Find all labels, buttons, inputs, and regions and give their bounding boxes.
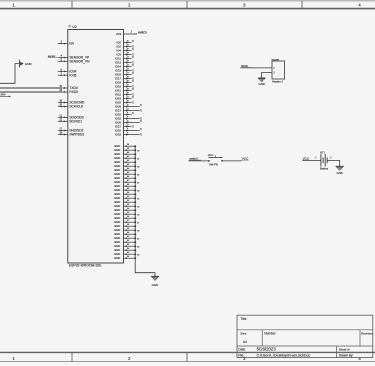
svg-text:45: 45 [127,172,129,174]
svg-text:IO12: IO12 [115,57,121,61]
svg-text:SW-PB: SW-PB [209,162,218,166]
ground symbol at battery [336,166,344,175]
U2 pin 62 (GND) right stub [114,240,136,244]
svg-text:66: 66 [127,256,129,258]
U2 pin 22 (SDI/SD1) left stub [58,119,82,123]
junction [134,149,136,151]
junction [134,197,136,199]
U2 GND pins and ground bus [114,144,139,260]
U2 pin 49 (GND) right stub [114,188,139,192]
svg-text:60: 60 [127,232,129,234]
svg-text:53: 53 [127,204,129,206]
svg-text:62: 62 [127,240,129,242]
svg-text:ESP32-WROOM-32E: ESP32-WROOM-32E [69,264,102,268]
wire S1 to VCC [222,160,241,162]
svg-text:buzzer: buzzer [272,58,280,61]
svg-text:56: 56 [127,216,129,218]
svg-text:IO14: IO14 [115,65,121,69]
junction [134,181,136,183]
svg-text:IO26: IO26 [115,105,121,109]
svg-text:IO25: IO25 [115,101,121,105]
U2 pin 66 (GND) right stub [114,256,136,260]
svg-text:54: 54 [127,208,129,210]
svg-text:SDI/SD1: SDI/SD1 [69,119,82,123]
svg-text:IO2: IO2 [117,45,122,49]
U2 pin 60 (GND) right stub [114,232,136,236]
net label VCC (battery) [302,156,310,160]
U2 pin 52 (GND) right stub [114,200,136,204]
junction [134,169,136,171]
svg-text:38: 38 [127,144,129,146]
U2 pin 54 (GND) right stub [114,208,136,212]
svg-text:GND: GND [25,62,33,66]
U2 pin 12 (IO27) right stub [115,108,143,112]
U2 pin 23 (IO15) right stub [115,68,135,72]
svg-text:12: 12 [127,125,129,127]
svg-text:SCK/CLK: SCK/CLK [69,105,84,109]
svg-text:File:: File: [238,353,244,357]
svg-text:8: 8 [127,113,128,115]
svg-text:10: 10 [127,101,129,103]
U2 pin 38 (GND) right stub [114,144,136,148]
junction [134,177,136,179]
connector P1 (buzzer header) body [272,61,285,79]
U2 pin 8 (IO32) right stub [115,127,143,132]
svg-text:Battery: Battery [320,167,329,171]
svg-text:3RV: 3RV [0,92,5,96]
svg-text:Date:: Date: [238,347,246,351]
svg-text:59: 59 [127,228,129,230]
U2 pin 21 (SDO/SD0) left stub [58,115,84,119]
svg-text:Title: Title [240,317,246,321]
svg-text:IO19: IO19 [115,85,121,89]
svg-text:IO27: IO27 [115,125,121,129]
svg-text:A4: A4 [243,340,247,344]
junction [134,237,136,239]
U2 pin 55 (GND) right stub [114,212,139,216]
svg-text:61: 61 [127,236,129,238]
svg-text:BT1: BT1 [320,152,325,155]
junction [134,245,136,247]
wire VCC to battery pin 1 [302,159,321,161]
ground flag (left, arrow style) [19,60,23,68]
svg-text:26: 26 [127,49,129,51]
svg-text:IO17: IO17 [115,77,121,81]
U2 pin 13 (IO14) right stub [115,63,135,68]
junction [134,157,136,159]
junction [134,165,136,167]
svg-text:64: 64 [127,248,129,250]
junction [134,253,136,255]
svg-text:53: 53 [137,206,139,208]
svg-text:52: 52 [127,200,129,202]
U2 reference designator [68,25,76,29]
U2 pin 10 (IO25) right stub [115,100,135,104]
svg-text:3V3: 3V3 [116,32,122,36]
junction [134,193,136,195]
svg-text:GND: GND [258,82,264,86]
U2 pin 41 (GND) right stub [114,156,139,160]
U2 pin 34 (RXD0) left stub [58,90,78,94]
U2 pin 40 (GND) right stub [114,152,136,156]
svg-text:58: 58 [127,224,129,226]
junction [134,217,136,219]
svg-text:59: 59 [137,230,139,232]
ground symbol below U2 [151,276,159,287]
battery BT1 [321,154,327,166]
op-amp U2 ESP32-WROOM-32E module body [68,30,124,264]
svg-text:switch: switch [189,156,198,160]
svg-text:39: 39 [127,148,129,150]
U2 pin 37 (IO23) right stub [115,95,135,100]
junction [134,209,136,211]
sheet border top outer line [0,0,375,2]
junction [134,213,136,215]
svg-text:IO0: IO0 [117,41,122,45]
svg-text:IO5: IO5 [117,53,122,57]
svg-text:Sheet of: Sheet of [339,348,350,352]
svg-text:45: 45 [137,174,139,176]
svg-text:50: 50 [127,192,129,194]
net label sensor on SENSOR_VP [48,55,58,58]
svg-text:31: 31 [127,85,129,87]
svg-text:14: 14 [127,57,129,59]
svg-text:IO16: IO16 [115,73,121,77]
U2 pin 5 (SENSOR_VN) left stub [58,59,90,63]
sheet border bottom outer line [0,361,375,363]
svg-text:40: 40 [127,152,129,154]
svg-text:Size: Size [240,331,246,335]
wire ground bus [135,146,155,276]
U2 pin 48 (GND) right stub [114,184,136,188]
U2 pin 35 (TXD0) left stub [58,86,78,90]
U2 pin 2 (3V3) [116,31,132,36]
pushbutton S1 (SW-PB) [208,156,223,162]
U2 pin 63 (GND) right stub [114,244,139,248]
svg-text:RXD0: RXD0 [69,90,78,94]
svg-text:24: 24 [127,45,129,47]
junction [134,153,136,155]
svg-text:27: 27 [127,73,129,75]
U2 pin 44 (GND) right stub [114,168,136,172]
svg-text:C:\Users\..\Desktop\br-ars.Sch: C:\Users\..\Desktop\br-ars.SchDoc [257,353,311,357]
wire TXD0 to left sheet edge [0,87,60,89]
svg-text:49: 49 [137,190,139,192]
junction [134,201,136,203]
U2 pin 8 (IO32) right stub [115,111,135,116]
junction [134,249,136,251]
svg-text:9: 9 [127,133,128,135]
svg-text:Revision: Revision [361,332,373,336]
svg-text:IO27: IO27 [115,109,121,113]
net label 3V3 with arrow (bottom left) [0,92,11,97]
wire 3V3 to switch net [124,33,138,35]
svg-text:55: 55 [127,212,129,214]
svg-text:EN: EN [69,42,74,46]
junction [134,185,136,187]
svg-text:44: 44 [127,168,129,170]
svg-text:IO15: IO15 [115,69,121,73]
U2 pin 11 (IO26) right stub [115,103,143,108]
svg-text:SENSOR_VN: SENSOR_VN [69,59,90,63]
sheet border bottom inner line [0,351,375,353]
svg-text:GND: GND [152,283,160,287]
svg-text:12: 12 [127,109,129,111]
svg-text:16: 16 [127,61,129,63]
U2 pin 51 (GND) right stub [114,196,139,200]
junction [134,221,136,223]
svg-text:43: 43 [137,166,139,168]
svg-text:13: 13 [127,65,129,67]
title block outline [237,315,373,357]
svg-text:28: 28 [127,77,129,79]
svg-text:23: 23 [127,69,129,71]
svg-text:55: 55 [137,214,139,216]
svg-text:33: 33 [127,89,129,91]
junction [134,189,136,191]
U2 pin 61 (GND) right stub [114,236,139,240]
U2 pin 6 (IO34) left stub [58,70,77,74]
svg-text:46: 46 [127,176,129,178]
svg-text:IO32: IO32 [115,129,121,133]
svg-text:switch: switch [138,31,147,35]
svg-text:51: 51 [127,196,129,198]
zone tick bottom 2|3 [186,352,188,361]
U2 pin 29 (IO5) right stub [117,52,135,56]
U2 pin 36 (IO22) right stub [115,92,135,96]
U2 pin 53 (GND) right stub [114,204,139,208]
U2 pin 3 (EN) left stub [58,42,75,46]
svg-text:57: 57 [127,220,129,222]
svg-text:GND: GND [336,171,342,175]
U2 right side IO pins [115,39,143,136]
svg-text:sfron: sfron [208,154,214,157]
U2 pin 58 (GND) right stub [114,224,136,228]
U2 pin 9 (IO33) right stub [115,132,143,136]
zone tick bottom 1|2 [71,352,73,361]
U2 pin 26 (IO4) right stub [117,47,135,52]
U2 pin 19 (SCS/CMD) left stub [58,101,85,105]
svg-text:SWP/SD3: SWP/SD3 [69,133,84,137]
wire from left edge up to GND flag [0,64,19,84]
svg-text:IO33: IO33 [115,133,121,137]
svg-text:25: 25 [127,41,129,43]
svg-text:5/26/2023: 5/26/2023 [257,346,277,351]
U2 pin 56 (GND) right stub [114,216,136,220]
wire P1 pin 2 to ground [262,72,272,78]
ground symbol at connector [258,78,266,86]
wire buzz net to P1 pin 1 [240,67,272,69]
svg-text:IO21: IO21 [115,89,121,93]
junction [134,145,136,147]
svg-text:8: 8 [127,129,128,131]
svg-text:11: 11 [127,121,129,123]
U2 pin 18 (SWP/SD3) left stub [58,133,84,137]
junction [134,205,136,207]
wire RXD0 to left sheet edge [0,91,60,93]
U2 pin 50 (GND) right stub [114,192,136,196]
U2 pin 11 (IO26) right stub [115,119,143,124]
svg-text:42: 42 [127,160,129,162]
U2 pin 46 (GND) right stub [114,176,136,180]
U2 pin 16 (IO13) right stub [115,60,135,64]
sheet border top inner line [0,8,375,10]
U2 pin 45 (GND) right stub [114,172,139,176]
svg-text:47: 47 [137,182,139,184]
zone tick top 1|2 [71,1,73,9]
svg-text:IO13: IO13 [115,61,121,65]
svg-text:GND: GND [114,256,120,260]
U2 pin 12 (IO27) right stub [115,124,135,128]
svg-text:VCC: VCC [303,156,310,160]
svg-text:IO26: IO26 [115,121,121,125]
junction [134,161,136,163]
svg-text:9: 9 [127,117,128,119]
U2 pin 4 (SENSOR_VP) left stub [58,56,89,60]
svg-text:39: 39 [137,150,139,152]
U2 pin 24 (IO2) right stub [117,44,135,48]
U2 pin 57 (GND) right stub [114,220,139,224]
U2 pin 25 (IO0) right stub [117,39,135,44]
svg-text:61: 61 [137,238,139,240]
svg-text:65: 65 [127,252,129,254]
zone tick top 3|4 [301,1,303,9]
svg-text:48: 48 [127,184,129,186]
svg-text:65: 65 [137,254,139,256]
svg-text:IO18: IO18 [115,81,121,85]
U2 pin 65 (GND) right stub [114,252,139,256]
svg-text:63: 63 [127,244,129,246]
svg-text:IO35: IO35 [69,73,76,77]
svg-text:VCC: VCC [242,156,249,160]
U2 pin 20 (SCK/CLK) left stub [58,105,84,109]
U2 pin 14 (IO12) right stub [115,55,135,60]
U2 pin 47 (GND) right stub [114,180,139,184]
junction [134,225,136,227]
svg-text:IO22: IO22 [115,93,121,97]
U2 pin 39 (GND) right stub [114,148,139,152]
svg-text:51: 51 [137,198,139,200]
svg-text:30: 30 [127,81,129,83]
U2 pin 27 (IO16) right stub [115,71,135,76]
U2 pin 9 (IO33) right stub [115,116,143,120]
svg-text:37: 37 [127,97,129,99]
junction [134,229,136,231]
U2 pin 42 (GND) right stub [114,160,136,164]
U2 pin 64 (GND) right stub [114,248,136,252]
svg-text:49: 49 [127,188,129,190]
svg-text:IO32: IO32 [115,113,121,117]
svg-text:11: 11 [127,105,129,107]
svg-text:41: 41 [137,158,139,160]
junction [134,257,136,259]
svg-text:36: 36 [127,93,129,95]
net label switch (left of pushbutton) [189,156,201,160]
U2 pin 28 (IO17) right stub [115,76,135,80]
wire switch net to S1 [189,160,209,162]
U2 pin 31 (IO19) right stub [115,84,135,88]
svg-text:41: 41 [127,156,129,158]
svg-text:63: 63 [137,246,139,248]
junction [134,233,136,235]
svg-text:IO33: IO33 [115,117,121,121]
U2 pin 17 (SHD/SD2) left stub [58,129,84,133]
net label buzz (wire to connector pin 1) [241,65,252,68]
svg-text:IO4: IO4 [117,49,122,53]
zone tick top 2|3 [186,1,188,9]
svg-text:Header 2: Header 2 [272,80,284,84]
U2 pin 30 (IO18) right stub [115,79,135,84]
svg-text:Number: Number [264,332,276,336]
U2 pin 43 (GND) right stub [114,164,139,168]
U2 pin 33 (IO21) right stub [115,87,135,92]
svg-text:29: 29 [127,53,129,55]
U2 pin 59 (GND) right stub [114,228,139,232]
svg-text:Drawn By:: Drawn By: [339,354,354,358]
net label VCC (right of pushbutton) [241,156,249,160]
svg-text:57: 57 [137,222,139,224]
svg-text:U2: U2 [72,25,76,29]
svg-text:IO23: IO23 [115,97,121,101]
svg-text:43: 43 [127,164,129,166]
junction [134,173,136,175]
wire battery pin 2 to ground [327,160,340,166]
U2 pin 7 (IO35) left stub [58,73,77,77]
junction [134,241,136,243]
svg-text:47: 47 [127,180,129,182]
